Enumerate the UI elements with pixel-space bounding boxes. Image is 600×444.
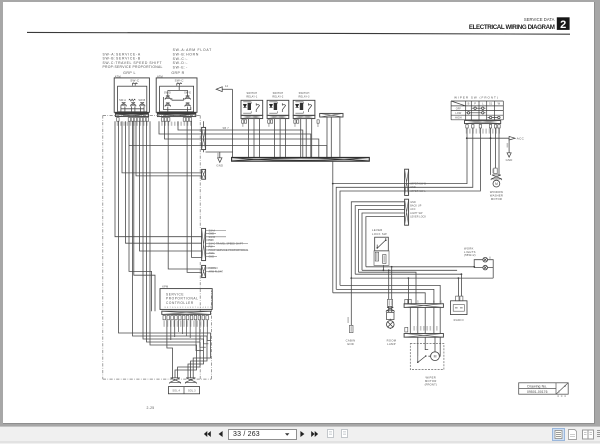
radio box — [451, 301, 468, 315]
wire b4 to wiper motor S — [407, 278, 409, 304]
bus line b2 — [362, 269, 457, 271]
svg-text:SW-B: SW-B — [138, 99, 145, 102]
main harness bus bar — [232, 157, 370, 161]
svg-text:S1: S1 — [489, 102, 493, 106]
washer motor terminal — [494, 168, 497, 174]
svg-text:SW-C: SW-C — [175, 79, 185, 83]
work lights return to bus b4 — [488, 260, 494, 278]
toolbar prev-page button — [218, 431, 223, 437]
terminal under wiper sw — [489, 125, 491, 128]
svg-text:MOTOR: MOTOR — [425, 379, 437, 383]
terminal under wiper sw — [479, 125, 481, 128]
svg-text:S: S — [417, 301, 419, 304]
tiny labels under relay K2 — [268, 124, 270, 127]
wiper motor M — [431, 352, 440, 361]
svg-text:SWITCH: SWITCH — [273, 92, 284, 95]
controller terminal 3 — [171, 315, 174, 319]
wiper switch table grid — [451, 101, 503, 120]
switch box GRP L outer — [114, 78, 149, 112]
svg-text:SW-E:-: SW-E:- — [173, 65, 188, 69]
wiper motor park contact — [418, 356, 426, 362]
junction b4-wiper — [408, 277, 410, 279]
svg-text:GND: GND — [216, 163, 223, 167]
svg-text:GND: GND — [410, 201, 416, 204]
cabin gnd wire label — [347, 317, 349, 323]
solenoid box SOL.4 / SOL.3 — [168, 387, 199, 394]
junction ACC-2 — [490, 137, 492, 139]
wires GRP L internal to strip — [121, 106, 144, 112]
connector plug SW-E upper (GRP R) — [185, 96, 190, 100]
svg-text:SERVICE DATA: SERVICE DATA — [524, 17, 555, 22]
svg-text:WIPER SW (FRONT): WIPER SW (FRONT) — [454, 96, 499, 100]
relay K2 diode — [269, 104, 272, 107]
svg-text:ACC: ACC — [517, 137, 525, 141]
bus line b4 — [351, 277, 493, 279]
relay K2 connector — [267, 115, 289, 118]
wiper wire W down-left to bus — [340, 128, 480, 285]
controller pin stub 3 — [174, 320, 176, 337]
svg-text:WIPER SW-L: WIPER SW-L — [410, 190, 426, 193]
svg-text:MOTOR: MOTOR — [491, 197, 502, 201]
terminal a under relay K3 — [294, 120, 296, 123]
svg-text:KPM: KPM — [162, 285, 168, 289]
wire GRP R p4 to main bus — [178, 121, 303, 157]
bus line b2b — [359, 272, 417, 304]
switch SW-C (GRP R) — [177, 83, 182, 86]
svg-text:P: P — [474, 102, 476, 106]
controller terminal 10 — [198, 315, 201, 319]
work light lamp 1 — [483, 257, 488, 262]
dashed cab boundary vertical — [199, 115, 201, 379]
controller terminal 11 — [202, 315, 205, 319]
wire to cabin gnd — [350, 278, 352, 325]
relay K2 contact — [282, 103, 285, 112]
work light rating label — [489, 257, 491, 259]
wire GRP L p7 to aux connector row2 — [136, 121, 202, 176]
toolbar next-page button — [300, 431, 305, 437]
svg-text:GRP L: GRP L — [123, 71, 136, 75]
bus line b3 — [355, 273, 461, 275]
terminal a under relay K2 — [268, 120, 270, 123]
controller U1 box — [160, 289, 212, 310]
terminal 2 under GRP R — [164, 118, 167, 122]
ACC feed line — [467, 137, 509, 139]
junction b2-roomlamp1 — [388, 269, 390, 271]
relay K3 coil — [300, 103, 303, 110]
relay K1 contact — [256, 103, 259, 112]
relay K2 box — [267, 100, 289, 115]
terminal 3 under GRP L — [131, 118, 134, 122]
room lamp terminal text b — [391, 300, 393, 305]
wiper motor connector row 2 — [404, 334, 443, 338]
svg-text:GND: GND — [209, 255, 215, 258]
svg-text:L: L — [482, 102, 484, 106]
wire GRP L p11 cascade to SOL.4 pin2 — [150, 121, 197, 377]
svg-text:GND: GND — [506, 158, 513, 162]
tiny labels under relay K1 — [242, 124, 244, 127]
wire GRP R p5 to connector B3 ARM — [187, 121, 201, 272]
wire GRP L p8 to connector B2 row — [140, 121, 202, 251]
controller terminal 12 — [206, 315, 209, 319]
terminal 1 under GRP R — [161, 118, 164, 122]
wire controller pin to SOL.4 pin1 — [167, 320, 173, 378]
terminal b under relay K3 — [297, 120, 299, 123]
svg-text:LIGHT SW: LIGHT SW — [410, 212, 423, 215]
lever lock terminal 1 — [375, 252, 378, 261]
wire ACC to bus — [359, 209, 405, 272]
wiper wire B to junction — [333, 128, 467, 184]
lever lock terminal text 1 — [376, 253, 378, 260]
switch box GRP R inner — [160, 86, 194, 112]
tiny wire labels under GRP R — [161, 122, 191, 126]
room lamp terminal text a — [389, 300, 391, 305]
relay K1 coil — [248, 103, 251, 110]
svg-text:SOL.4: SOL.4 — [172, 390, 180, 393]
svg-text:GRP R: GRP R — [171, 71, 184, 75]
wires relay K1 to main bus — [249, 119, 260, 158]
connector plug SW-A (GRP L) — [121, 103, 126, 107]
connector plug SW-D lower (GRP R) — [165, 103, 170, 107]
lever lock terminal 2 — [383, 255, 386, 264]
toolbar one-page layout icon — [567, 429, 578, 440]
svg-text:SOL.3: SOL.3 — [188, 390, 196, 393]
svg-text:(FRONT): (FRONT) — [425, 383, 437, 387]
wiper motor internal wires — [418, 337, 440, 356]
lever lock switch contact — [377, 238, 386, 248]
junction b4-cabin-gnd — [350, 277, 352, 279]
signal labels right of connector B2 — [206, 229, 226, 231]
work lights common feed — [474, 260, 483, 268]
spare connector 4 — [320, 113, 343, 117]
tiny label under spare connector — [317, 124, 319, 127]
wire GRP L p5 to controller pin1 — [129, 121, 152, 311]
wiper motor dashed enclosure — [410, 344, 444, 370]
svg-text:WIPER: WIPER — [426, 375, 437, 379]
junction work lights — [473, 266, 475, 268]
toolbar last-page button — [311, 431, 319, 437]
controller terminal 1 — [163, 315, 166, 319]
room lamp bulb — [387, 321, 395, 329]
svg-text:+: + — [424, 301, 426, 304]
svg-text:LOW: LOW — [455, 112, 462, 115]
wiper wire S down to washer connector — [490, 128, 492, 175]
controller pin stub 2 — [170, 320, 172, 340]
svg-text:RELAY-3: RELAY-3 — [299, 96, 311, 99]
toolbar first-page button — [203, 431, 211, 437]
relay K3 diode — [295, 104, 298, 107]
ACC arrow — [509, 136, 515, 140]
svg-text:PROP SERVICE PROPORTIONAL: PROP SERVICE PROPORTIONAL — [209, 249, 250, 252]
toolbar single-page view button (active, blue) — [552, 428, 565, 441]
room lamp box — [387, 312, 394, 319]
switch SW-C (GRP L) — [132, 83, 137, 86]
wires relay K3 to main bus — [301, 119, 312, 158]
controller terminal 7 — [186, 315, 189, 319]
controller terminal labels — [163, 321, 208, 327]
wiper motor pin labels row2 — [413, 326, 437, 331]
svg-text:SWITCH: SWITCH — [299, 92, 310, 95]
switch box GRP L inner — [118, 86, 147, 112]
tiny label at GND wire — [217, 153, 219, 158]
svg-text:M: M — [495, 182, 498, 186]
tiny wire labels under GRP L — [117, 122, 148, 126]
svg-text:M: M — [434, 355, 437, 359]
wire branch to main bus (row4) — [129, 146, 327, 158]
wire to room lamp 2 — [391, 267, 393, 300]
svg-text:WORK: WORK — [464, 246, 474, 250]
svg-text:LIGHTS: LIGHTS — [464, 250, 476, 254]
svg-text:WINDOW: WINDOW — [490, 190, 504, 194]
connector SOL.3 — [185, 378, 196, 384]
wire GND to bus b4 — [351, 202, 404, 278]
wire GRP L p10 cascade to SOL.4 pin3 — [147, 121, 201, 377]
junction wiper-B — [332, 183, 334, 185]
radio inner detail — [453, 305, 464, 312]
svg-text:+1: +1 — [440, 301, 443, 304]
wire GRP R p2 to main bus — [165, 121, 319, 157]
radio terminal 1 — [456, 296, 459, 301]
toolbar two-page layout icon — [582, 429, 594, 440]
wire GRP L p3 to aux connector row1 — [122, 121, 202, 173]
relay K3 contact — [308, 103, 311, 112]
svg-text:(55W×2): (55W×2) — [464, 253, 476, 257]
wire GRP L p1 to connector B2 row — [115, 121, 202, 237]
controller pin drop wires — [196, 320, 211, 351]
tiny label at right GND wire — [507, 143, 509, 148]
relay K3 box — [293, 100, 315, 115]
connector SOL.4 — [170, 378, 181, 384]
terminal under wiper sw — [494, 125, 496, 128]
connector plug SW-B (GRP L) — [140, 103, 145, 107]
svg-text:WASHER: WASHER — [490, 194, 503, 198]
connector plug SW-E lower (GRP R) — [185, 103, 190, 107]
svg-text:ARM FLOAT: ARM FLOAT — [209, 270, 224, 273]
drawing number box — [519, 383, 569, 394]
cab bulkhead connector C2 — [405, 199, 409, 225]
GRP R harness connector — [157, 114, 195, 116]
svg-text:RADIO: RADIO — [454, 318, 464, 322]
terminal a under relay K1 — [242, 120, 244, 123]
svg-text:GND: GND — [347, 342, 354, 346]
wire to cab ground — [508, 138, 510, 153]
wiper motor terminal b — [409, 299, 412, 304]
bulkhead connector B1 (upper) — [202, 127, 206, 149]
wire GRP L p12 to controller pin2 — [134, 121, 155, 311]
room lamp internal wires — [389, 306, 392, 319]
wire GND stub from connector — [206, 151, 234, 153]
tiny labels under relay K3 — [294, 124, 296, 127]
terminal 7 under GRP L — [143, 118, 146, 122]
terminal under wiper sw — [466, 125, 468, 128]
wiper wire B drop to bus — [332, 184, 334, 293]
wire LEVER LOCK to bus b1 — [366, 217, 405, 267]
window washer motor M — [493, 180, 500, 187]
washer motor return wire — [498, 128, 500, 175]
wiper table contacts row2 — [467, 112, 469, 114]
svg-text:WIPER SW-B: WIPER SW-B — [410, 183, 426, 186]
off-page arrow 14 — [216, 87, 232, 157]
wire GND drop — [219, 152, 221, 158]
svg-text:RELAY-2: RELAY-2 — [272, 96, 284, 99]
terminal under wiper sw — [472, 125, 474, 128]
wiper motor terminal a — [405, 299, 408, 304]
wiper wire L down-left to bus — [336, 128, 473, 289]
controller terminal 4 — [175, 315, 178, 319]
terminal 2 under GRP L — [128, 118, 131, 122]
switch box GRP R outer — [156, 78, 197, 112]
terminal 4 under GRP L — [134, 118, 137, 122]
svg-text:SW-C TRAVEL SPEED SHIFT: SW-C TRAVEL SPEED SHIFT — [209, 242, 244, 245]
svg-text:CABIN: CABIN — [346, 339, 356, 343]
terminal b under relay K1 — [244, 120, 246, 123]
wiper motor connector row 1 — [404, 304, 443, 308]
toolbar prev-view (disabled) icon — [325, 428, 336, 439]
terminal 4 under GRP R — [183, 118, 186, 122]
resistor network in GRP L — [129, 99, 136, 101]
washer motor feed wire — [495, 128, 497, 168]
wiper table contacts row1 — [474, 107, 476, 109]
wiper wire B rise to bus bar — [332, 161, 334, 183]
svg-text:LOCK SW: LOCK SW — [372, 232, 387, 236]
room lamp connector — [386, 307, 394, 312]
wire GRP L p6 cascade to SOL.3 pin2 — [133, 121, 208, 377]
wires between wiper motor connectors — [410, 307, 440, 333]
svg-text:SB 7: SB 7 — [223, 126, 230, 130]
controller harness connector — [162, 311, 211, 314]
bus line b7 (wiper B) — [333, 293, 425, 304]
junction b3-radio — [461, 273, 463, 275]
terminal 5 under GRP L — [137, 118, 140, 122]
lever lock terminal text 2 — [384, 255, 386, 262]
terminal 8 under GRP L — [146, 118, 149, 122]
svg-text:HIGH: HIGH — [455, 117, 462, 120]
terminal under wiper sw — [498, 125, 500, 128]
cabin gnd terminal text — [351, 326, 353, 332]
toolbar next-view (disabled) icon — [339, 428, 350, 439]
terminal 6 under GRP R — [189, 118, 192, 122]
controller terminal 5 — [179, 315, 182, 319]
bus line b6 (wiper L) — [336, 289, 434, 303]
wire through B1 vertical — [203, 121, 205, 152]
wiper table contacts row3 — [489, 116, 491, 118]
header chapter box 2 — [557, 17, 570, 31]
controller terminal 6 — [183, 315, 186, 319]
svg-text:GND: GND — [410, 186, 416, 189]
terminal under spare connector — [317, 120, 319, 123]
cab bulkhead connector C1 — [405, 169, 409, 195]
svg-text:SW-A: SW-A — [119, 99, 126, 102]
svg-text:BACK UP: BACK UP — [410, 205, 422, 208]
tiny wire labels under wiper sw — [466, 129, 500, 134]
ground arrow (right) — [507, 153, 511, 157]
connector plug mid (GRP L) — [131, 103, 136, 107]
svg-text:LEVER: LEVER — [372, 228, 383, 232]
terminal 5 under GRP R — [186, 118, 189, 122]
lever lock switch box — [375, 237, 389, 251]
svg-text:W: W — [498, 102, 501, 106]
svg-text:B: B — [433, 301, 435, 304]
washer terminal label — [492, 169, 494, 174]
svg-text:CONTROLLER: CONTROLLER — [166, 301, 194, 305]
bus line b5 (wiper W) — [340, 285, 440, 303]
harness boundary dashed box — [103, 115, 212, 379]
controller terminal 9 — [194, 315, 197, 319]
wire GRP L p2 cascade to SOL.3 pin3 — [119, 121, 211, 377]
junction b4-radio — [458, 277, 460, 279]
wire GRP R p1 to main bus — [159, 121, 311, 157]
relay K1 box — [241, 100, 263, 115]
wire GRP R p3 to connector B3 HORN — [168, 121, 201, 269]
junction b2-leverlock — [383, 269, 385, 271]
terminal 3 under GRP R — [167, 118, 170, 122]
wiper switch harness connector — [465, 121, 501, 124]
svg-text:2: 2 — [560, 19, 566, 31]
svg-text:PROP:SERVICE PROPORTIONAL: PROP:SERVICE PROPORTIONAL — [103, 65, 163, 69]
svg-text:LEVER LOCK: LEVER LOCK — [410, 215, 426, 218]
cabin gnd terminal — [349, 325, 353, 332]
wiper motor terminal c — [405, 327, 408, 332]
wire b3 to radio — [460, 274, 462, 296]
svg-text:RELAY-1: RELAY-1 — [246, 96, 258, 99]
relay K1 connector — [241, 115, 263, 118]
bulkhead connector B2 (controller signals) — [202, 228, 206, 260]
wire b4 to radio — [457, 278, 459, 296]
svg-text:ACC: ACC — [410, 208, 416, 211]
toolbar bottom shade — [0, 441, 600, 443]
wire GRP L p9 cascade to SOL.3 pin1 — [143, 121, 204, 377]
connector plug SW-D upper (GRP R) — [165, 96, 170, 100]
relay K1 diode — [243, 104, 246, 107]
bulkhead connector B1b (aux) — [202, 169, 206, 179]
svg-text:ELECTRICAL WIRING DIAGRAM: ELECTRICAL WIRING DIAGRAM — [469, 24, 555, 31]
washer motor connector — [491, 175, 502, 180]
svg-text:SWITCH: SWITCH — [246, 92, 257, 95]
terminal b under relay K2 — [271, 120, 273, 123]
toolbar clipped icon at right edge — [597, 429, 600, 440]
junction ACC-1 — [466, 137, 468, 139]
svg-text:14: 14 — [225, 84, 229, 88]
wire LIGHT SW to bus b2 — [362, 213, 405, 270]
svg-text:OFF: OFF — [456, 107, 462, 110]
wires spare connector to main bus — [327, 117, 340, 157]
bulkhead connector B3 (horn/arm) — [202, 265, 206, 277]
wire GRP L p4 to connector B2 row — [126, 121, 202, 243]
toolbar page-number input "33 / 263" — [228, 429, 297, 440]
svg-text:09501-00176: 09501-00176 — [527, 390, 548, 394]
svg-text:ROOM: ROOM — [387, 339, 397, 343]
GRP L harness connector — [115, 114, 148, 116]
GRP R connector strip (dark) — [157, 112, 196, 114]
wires relay K2 to main bus — [275, 119, 286, 158]
controller terminal 2 — [167, 315, 170, 319]
wire GRP R p6 to connector B2 row — [192, 121, 202, 257]
lever lock sw terminal outline — [374, 251, 389, 266]
svg-text:SW-C: SW-C — [130, 79, 140, 83]
svg-text:LAMP: LAMP — [387, 342, 396, 346]
page header rule — [27, 32, 570, 34]
wire to room lamp 1 — [388, 270, 390, 299]
wire lever lock to bus b2 — [382, 265, 384, 270]
toolbar input dropdown caret — [285, 433, 290, 436]
work light lamp 2 — [483, 265, 488, 270]
wires GRP R internal — [164, 86, 191, 112]
tiny note under drawing box — [557, 395, 566, 397]
terminal 6 under GRP L — [140, 118, 143, 122]
radio terminal 2 — [460, 296, 463, 301]
relay K3 connector — [293, 115, 315, 118]
GRP L connector strip (dark) — [115, 112, 149, 114]
svg-text:2-25: 2-25 — [147, 406, 155, 410]
